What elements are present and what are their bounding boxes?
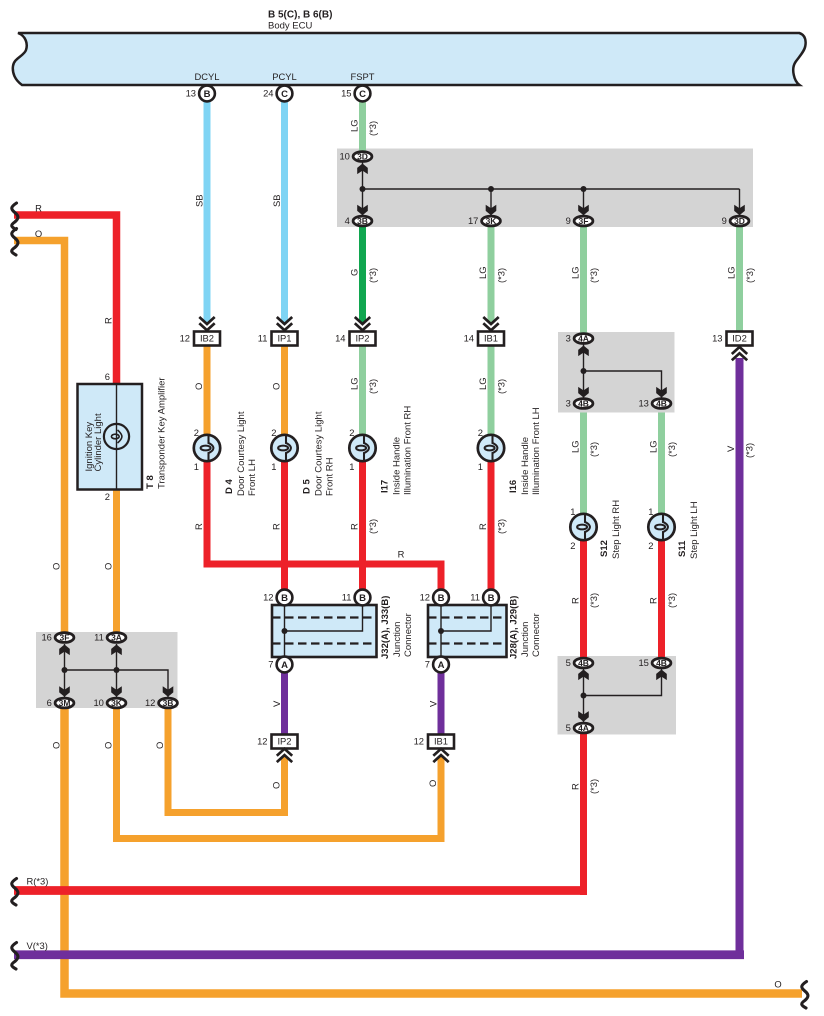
wire V from V(*3) to ID2 [736,358,744,959]
wire V(*3) from left side [14,950,744,959]
wire V from J28 pin 7 to IB1 [438,671,445,735]
wire LG from IP2 to I17 [359,346,366,437]
svg-text:O: O [270,383,281,390]
svg-text:16: 16 [41,632,51,643]
svg-text:(*3): (*3) [495,268,506,283]
wire LG from 3D to ID2 [736,227,743,332]
svg-text:3F: 3F [579,216,589,226]
svg-text:B: B [359,593,366,604]
svg-text:4: 4 [345,215,350,226]
svg-text:O: O [50,742,61,749]
svg-text:Body ECU: Body ECU [268,21,312,32]
svg-text:3B: 3B [357,216,368,226]
svg-text:2: 2 [478,427,483,438]
svg-text:4B: 4B [656,658,667,668]
svg-text:O: O [193,383,204,390]
svg-text:24: 24 [263,88,273,99]
svg-text:14: 14 [335,333,345,344]
ECU pin 24 (C) PCYL [277,86,293,102]
wire R from S12 to 4B [580,540,587,658]
connector 4A pin 3 [574,334,593,344]
svg-text:3D: 3D [357,152,368,162]
svg-text:SB: SB [271,194,282,207]
arrows into IB1 [483,317,498,324]
svg-text:LG: LG [477,266,488,279]
svg-text:(*3): (*3) [588,268,599,283]
svg-text:1: 1 [271,461,276,472]
svg-text:O: O [35,228,42,239]
connector ID2 pin 13 [727,332,753,346]
wire SB from PCYL to IP1 [281,101,288,323]
svg-text:J28(A), J29(B): J28(A), J29(B) [508,596,519,659]
svg-text:12: 12 [145,697,155,708]
svg-text:(*3): (*3) [495,519,506,534]
svg-text:3B: 3B [163,698,174,708]
wire R(*3) from left side [14,886,587,895]
svg-text:R: R [270,523,281,530]
svg-text:(*3): (*3) [743,443,754,458]
J32(A), J33(B) pin 11 (B) [355,590,371,606]
svg-text:O: O [270,782,281,789]
svg-text:5: 5 [566,657,571,668]
svg-text:O: O [427,780,438,787]
wire R from D5 to J32 pin 12 [281,461,288,590]
net line 3A to 3K [116,644,118,697]
svg-text:Illumination Front LH: Illumination Front LH [531,407,542,495]
svg-text:LG: LG [348,119,359,132]
svg-text:3K: 3K [111,698,123,708]
lamp I17 inside handle illumination front RH [349,435,375,461]
svg-text:(*3): (*3) [367,121,378,136]
junction dot [114,667,120,673]
connector IB1 pin 12 lower [428,735,454,749]
svg-text:O: O [102,742,113,749]
svg-text:IP2: IP2 [355,333,369,344]
svg-text:(*3): (*3) [666,593,677,608]
svg-text:11: 11 [258,333,268,344]
arrow into 3D [357,164,368,175]
svg-text:Junction: Junction [520,622,531,657]
svg-text:11: 11 [342,592,352,603]
wire R from R(*3) to 4A [580,734,587,895]
connector 4B pin 13 [652,399,671,409]
svg-text:Cylinder Light: Cylinder Light [93,413,104,471]
transponder key amplifier T8 [78,384,143,490]
J32(A), J33(B) pin 7 (A) [277,657,293,673]
svg-text:Junction: Junction [392,622,403,657]
svg-text:7: 7 [425,659,430,670]
arrows into IP1 [277,317,292,324]
lamp D4 door courtesy light front LH [194,435,220,461]
wire O from T8 to 3A [113,490,120,633]
svg-text:R: R [398,549,405,560]
wire O from IB2 to D4 [204,346,211,437]
svg-text:ID2: ID2 [732,333,747,344]
svg-text:IB1: IB1 [484,333,498,344]
svg-text:3: 3 [566,398,571,409]
svg-text:Inside Handle: Inside Handle [520,437,531,495]
svg-text:(*3): (*3) [744,268,755,283]
Body ECU block [13,33,806,85]
svg-text:2: 2 [570,540,575,551]
junction dot [581,693,587,699]
svg-text:(*3): (*3) [588,442,599,457]
svg-text:3A: 3A [111,633,122,643]
connector block shading step light feed [558,332,675,413]
svg-text:Front RH: Front RH [324,457,335,496]
svg-text:6: 6 [47,697,52,708]
svg-text:(*3): (*3) [367,268,378,283]
svg-text:Connector: Connector [531,613,542,657]
wire O from left side to 3F [14,241,65,633]
svg-text:R(*3): R(*3) [27,876,49,887]
wire O from IP1 to D5 [281,346,288,437]
svg-text:LG: LG [569,266,580,279]
net J32(A), J33(B) pin 11 branch [285,605,363,631]
svg-text:R: R [647,597,658,604]
svg-text:R: R [569,597,580,604]
junction dot [360,186,366,192]
arrow into 4B left [578,670,589,681]
svg-text:C: C [281,89,288,100]
svg-text:Connector: Connector [403,613,414,657]
connector 4A pin 5 [574,723,593,733]
wire R from D4 to J28 pin 12 [207,461,441,590]
net line 4A to 4B [583,344,585,398]
svg-text:LG: LG [477,377,488,390]
svg-text:2: 2 [271,427,276,438]
svg-text:IB2: IB2 [200,333,214,344]
svg-text:(*3): (*3) [588,779,599,794]
svg-text:9: 9 [566,215,571,226]
svg-text:2: 2 [105,491,110,502]
wire R from S11 to 4B [658,540,665,658]
arrow into 4B right [656,670,667,681]
svg-text:FSPT: FSPT [351,71,375,82]
net branch to 4B right [584,371,662,398]
net line 3F to 3M [64,644,66,697]
wire R from I16 to J28 pin 11 [488,461,495,590]
svg-text:G: G [348,269,359,276]
wire V from J32 pin 7 to IP2 [281,671,288,735]
J28(A), J29(B) pin 12 (B) [433,590,449,606]
connector block shading lower left [36,632,178,708]
svg-text:LG: LG [725,266,736,279]
svg-text:4A: 4A [578,334,589,344]
connector block shading top right [337,149,753,228]
lamp ignition key cylinder light [104,424,129,449]
svg-text:SB: SB [193,194,204,207]
svg-text:7: 7 [268,659,273,670]
svg-text:12: 12 [414,736,424,747]
svg-text:10: 10 [339,151,349,162]
svg-text:R: R [348,523,359,530]
wire O from 3M to right side [65,708,803,994]
connector 3A pin 11 [107,633,126,643]
svg-text:9: 9 [722,215,727,226]
svg-text:LG: LG [569,440,580,453]
svg-text:4B: 4B [578,399,589,409]
connector 4B pin 15 [652,658,671,668]
arrow into 3B [163,686,174,697]
svg-text:R: R [35,203,42,214]
wire break R left [12,203,18,230]
connector 3D pin 9 [730,216,749,226]
svg-text:(*3): (*3) [367,519,378,534]
svg-text:LG: LG [647,440,658,453]
svg-text:IP1: IP1 [277,333,291,344]
svg-text:15: 15 [341,88,351,99]
svg-text:3M: 3M [59,698,71,708]
svg-text:3D: 3D [734,216,745,226]
svg-text:Door Courtesy Light: Door Courtesy Light [313,411,324,496]
svg-text:Front LH: Front LH [247,459,258,496]
svg-text:J32(A), J33(B): J32(A), J33(B) [380,596,391,659]
wire R from left side to T8 [14,215,117,384]
svg-text:R: R [193,523,204,530]
wire SB from DCYL to IB2 [204,101,211,323]
arrow into 3M [59,686,70,697]
arrow into 3K [486,205,497,216]
svg-text:Transponder Key Amplifier: Transponder Key Amplifier [156,377,167,489]
svg-text:O: O [102,563,113,570]
svg-text:IB1: IB1 [434,736,448,747]
svg-text:12: 12 [180,333,190,344]
svg-text:D 5: D 5 [301,479,312,495]
svg-text:B: B [438,593,445,604]
connector 3D pin 10 [353,152,372,162]
svg-text:O: O [154,742,165,749]
connector 4B pin 3 [574,399,593,409]
junction dot [581,186,587,192]
svg-text:I17: I17 [379,480,390,493]
svg-text:13: 13 [712,333,722,344]
wire break R(*3) left [12,879,18,906]
svg-text:V: V [271,700,282,707]
svg-text:12: 12 [257,736,267,747]
svg-text:13: 13 [186,88,196,99]
wire break O right [802,982,808,1009]
svg-text:3F: 3F [60,633,70,643]
svg-text:A: A [281,660,288,671]
svg-text:6: 6 [105,371,110,382]
svg-text:Step Light LH: Step Light LH [689,501,700,559]
junction dot [438,628,444,634]
net line across block [363,188,740,190]
lamp S12 step light RH [570,514,596,540]
svg-text:1: 1 [478,461,483,472]
net line 4B to 4A [583,669,585,722]
junction connector J28(A), J29(B) [428,605,507,657]
svg-text:1: 1 [570,506,575,517]
svg-text:(*3): (*3) [367,379,378,394]
svg-text:I16: I16 [508,480,519,493]
svg-text:T 8: T 8 [145,475,156,489]
connector IP2 pin 12 lower [272,735,298,749]
wire G from 3B to IP2 [359,227,366,323]
wire LG from IB1 to I16 [488,346,495,437]
ECU pin 15 (C) FSPT [355,86,371,102]
svg-text:B: B [488,593,495,604]
arrows into IP2 [355,317,370,324]
svg-text:D 4: D 4 [224,479,235,495]
svg-text:C: C [359,89,366,100]
svg-text:15: 15 [638,657,648,668]
svg-text:(*3): (*3) [588,593,599,608]
svg-text:4A: 4A [578,723,589,733]
svg-text:14: 14 [464,333,474,344]
svg-text:B: B [281,593,288,604]
svg-text:17: 17 [468,215,478,226]
svg-text:(*3): (*3) [666,442,677,457]
wire O from 3B to IP2 [168,708,285,813]
arrows into IB2 [199,317,214,324]
connector 3B pin 4 [353,216,372,226]
arrow into 3A [111,645,122,656]
svg-text:12: 12 [420,592,430,603]
svg-text:O: O [50,563,61,570]
lamp S11 step light LH [648,514,674,540]
svg-text:11: 11 [470,592,480,603]
svg-text:IP2: IP2 [277,736,291,747]
connector block shading step light return [558,656,677,735]
svg-text:2: 2 [349,427,354,438]
wire O from 3K to IB1 [117,708,442,839]
junction dot [488,186,494,192]
junction dot [62,667,68,673]
arrow into 4B right [656,387,667,398]
svg-text:(*3): (*3) [495,379,506,394]
svg-text:S11: S11 [677,540,688,557]
svg-text:11: 11 [94,632,104,643]
arrow into 3B [357,205,368,216]
net J28(A), J29(B) pin 11 branch [441,605,491,631]
junction connector J32(A), J33(B) [272,605,377,657]
connector IP2 pin 14 [350,332,376,346]
wire LG from 4B to S11 [658,413,665,515]
svg-text:V: V [427,700,438,707]
net branch to 3B [65,670,169,697]
svg-text:1: 1 [648,506,653,517]
svg-text:13: 13 [638,398,648,409]
connector 3B pin 12 [159,698,178,708]
arrows from IB1 lower [433,749,448,756]
svg-text:2: 2 [194,427,199,438]
svg-text:Inside Handle: Inside Handle [391,437,402,495]
connector 3M pin 6 [55,698,74,708]
connector 3F pin 16 [55,633,74,643]
svg-text:B: B [204,89,211,100]
svg-text:R: R [102,317,113,324]
net J28(A), J29(B) pin 12 to pin 7 [440,605,442,657]
wire R from I17 to J32 pin 11 [359,461,366,590]
connector 3K pin 10 [107,698,126,708]
svg-text:A: A [438,660,445,671]
net branch to 3D right [739,189,741,216]
connector IP1 pin 11 [272,332,298,346]
svg-text:4B: 4B [656,399,667,409]
svg-text:Illumination Front RH: Illumination Front RH [402,406,413,495]
svg-text:1: 1 [349,461,354,472]
arrow into 4B left [578,387,589,398]
wire LG from 3K to IB1 [488,227,495,323]
svg-text:R: R [477,523,488,530]
arrow into 4A [578,346,589,357]
svg-text:O: O [774,979,781,990]
wire break O left [12,229,18,256]
svg-text:12: 12 [263,592,273,603]
svg-text:V(*3): V(*3) [27,940,48,951]
connector 3K pin 17 [482,216,501,226]
net J32(A), J33(B) pin 12 to pin 7 [284,605,286,657]
connector 3F pin 9 [574,216,593,226]
svg-text:V: V [725,445,736,452]
net branch to 3K [490,189,492,216]
wire LG from 4B to S12 [580,413,587,515]
connector IB1 pin 14 [478,332,504,346]
svg-text:4B: 4B [578,658,589,668]
wire LG from 3F to 4A [580,227,587,335]
J28(A), J29(B) pin 11 (B) [483,590,499,606]
lamp I16 inside handle illumination front LH [478,435,504,461]
svg-text:Door Courtesy Light: Door Courtesy Light [236,411,247,496]
svg-text:1: 1 [194,461,199,472]
arrow into 3F [578,205,589,216]
J32(A), J33(B) pin 12 (B) [277,590,293,606]
net branch from 4B right [584,669,662,696]
junction dot [282,628,288,634]
svg-text:LG: LG [348,377,359,390]
svg-text:PCYL: PCYL [272,71,297,82]
lamp D5 door courtesy light front RH [271,435,297,461]
svg-text:DCYL: DCYL [194,71,219,82]
svg-text:R: R [569,783,580,790]
net line 3D to 3B [362,160,364,221]
svg-text:3: 3 [566,333,571,344]
arrows from ID2 [732,347,747,354]
svg-text:Step Light RH: Step Light RH [611,500,622,559]
connector 4B pin 5 [574,658,593,668]
junction dot [581,368,587,374]
arrow into 4A [578,711,589,722]
svg-text:3K: 3K [486,216,498,226]
connector IB2 pin 12 [194,332,220,346]
svg-text:5: 5 [566,722,571,733]
wire through T8 [116,384,118,490]
svg-text:B 5(C), B 6(B): B 5(C), B 6(B) [268,10,332,21]
svg-text:10: 10 [93,697,103,708]
wire break V(*3) left [12,943,18,970]
wire LG from FSPT to 3D [359,101,366,151]
arrow into 3K [111,686,122,697]
J28(A), J29(B) pin 7 (A) [433,657,449,673]
arrow into 3D right [734,205,745,216]
svg-text:2: 2 [648,540,653,551]
arrows from IP2 lower [277,749,292,756]
svg-text:S12: S12 [599,540,610,557]
ECU pin 13 (B) DCYL [199,86,215,102]
arrow into 3F [59,645,70,656]
net branch to 3F [583,189,585,216]
